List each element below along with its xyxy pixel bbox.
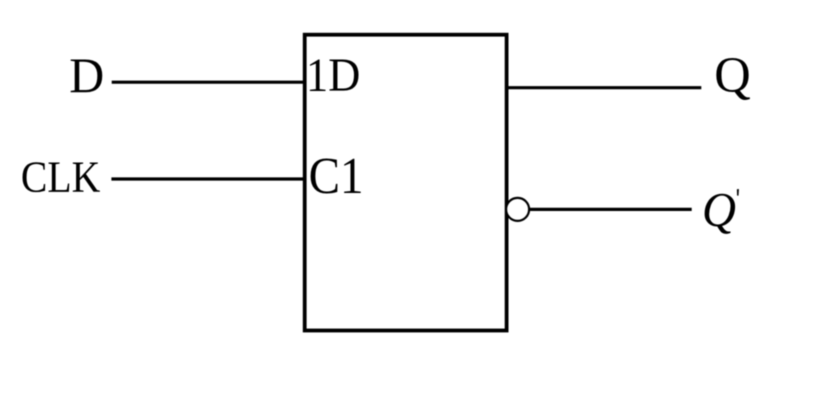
svg-text:CLK: CLK (21, 154, 100, 202)
svg-text:C1: C1 (309, 147, 364, 205)
svg-text:D: D (69, 47, 104, 103)
svg-text:Q: Q (714, 47, 750, 103)
svg-text:1D: 1D (306, 48, 360, 101)
svg-text:Q: Q (702, 183, 736, 237)
